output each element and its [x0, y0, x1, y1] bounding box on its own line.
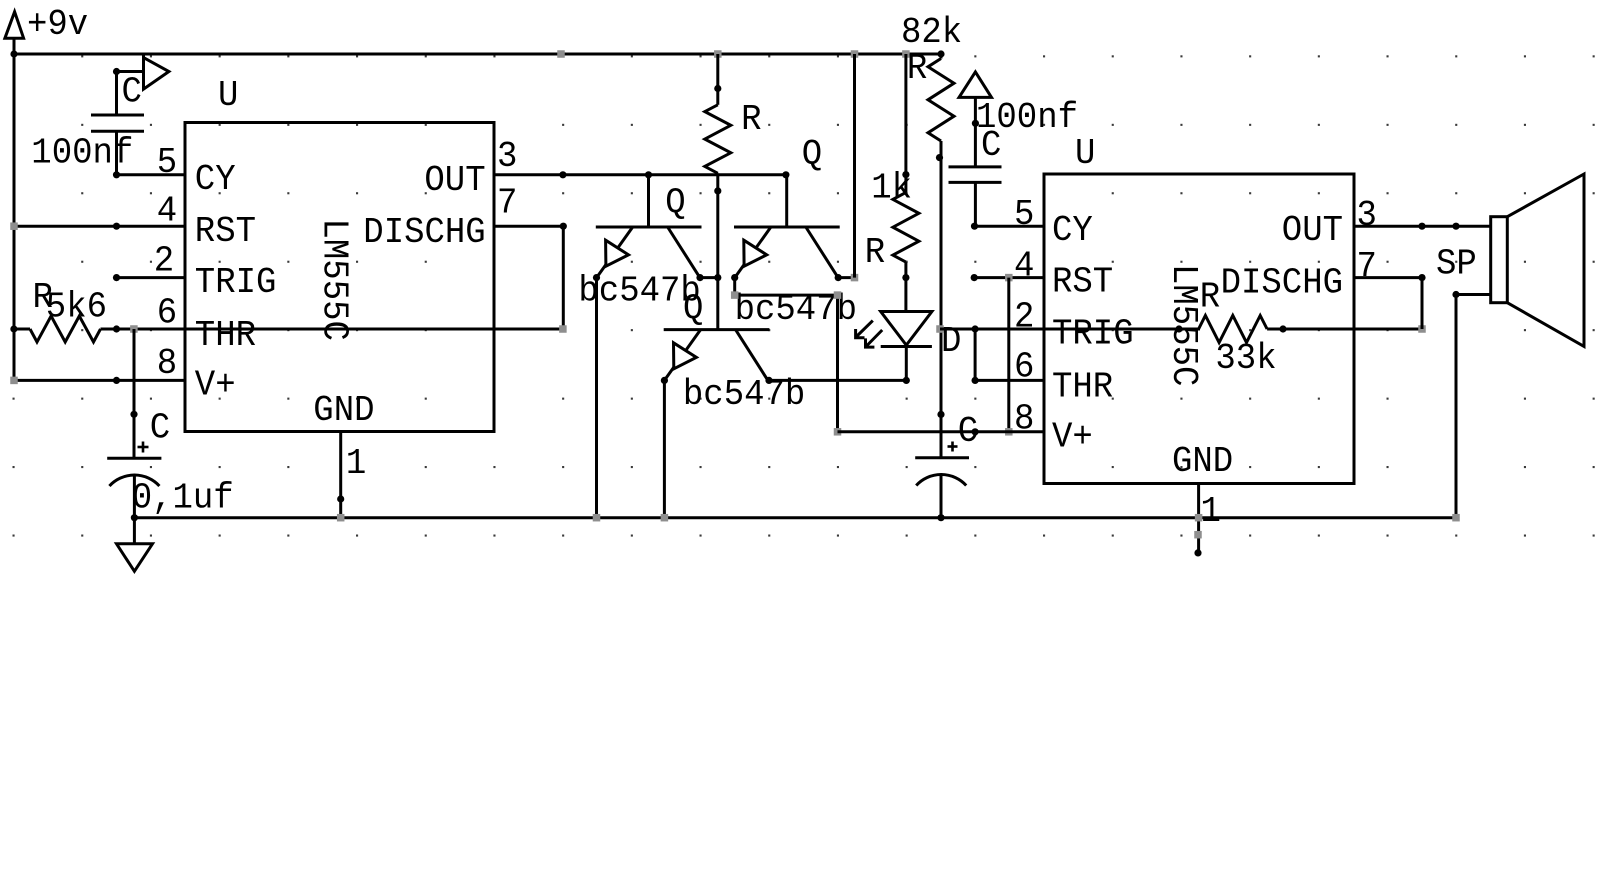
- capacitor C 0,1uf (polarized): [133, 329, 136, 458]
- svg-text:THR: THR: [195, 315, 256, 356]
- wire: pin8 V+ stub IC1: [14, 379, 185, 382]
- wire: pin1 GND stub IC2: [1197, 484, 1200, 554]
- resistor R (center, collector load): [716, 54, 719, 105]
- wire: DISCHG pin7 IC2 down to 33k line: [1354, 276, 1422, 279]
- wire: THR line through IC1 to DISCHG: [101, 328, 564, 331]
- svg-text:Q: Q: [665, 183, 685, 224]
- svg-text:1: 1: [1201, 491, 1221, 532]
- svg-text:GND: GND: [1172, 441, 1233, 482]
- svg-text:8: 8: [157, 343, 177, 384]
- svg-text:C: C: [981, 125, 1001, 166]
- arrow marker (buffer arrow at top): [142, 54, 145, 89]
- resistor R 33k: [1199, 316, 1268, 343]
- wire: V+ line into IC2 pin8: [838, 430, 1045, 433]
- svg-text:TRIG: TRIG: [195, 262, 277, 303]
- wire: OUT pin3 IC2 to speaker: [1354, 225, 1491, 228]
- svg-text:R: R: [865, 232, 885, 273]
- wire: pin5 CY stub IC1: [117, 173, 186, 176]
- svg-text:4: 4: [1014, 246, 1034, 287]
- svg-text:RST: RST: [195, 211, 256, 252]
- svg-text:6: 6: [157, 293, 177, 334]
- svg-text:Q: Q: [683, 289, 703, 330]
- wire: pin5 CY stub IC2: [975, 225, 1045, 228]
- wire: Q1 collector to center vertical: [700, 276, 718, 279]
- wire: center vertical from OUT line down to Q3 base: [716, 175, 719, 329]
- wire: OUT pin3 IC1: [494, 173, 786, 176]
- transistor Q1 bc547b: [647, 175, 650, 227]
- wire: +9V top rail: [14, 53, 941, 56]
- wire: pin2 TRIG stub IC1: [117, 276, 186, 279]
- wire: +9V drop to Q2 collector: [853, 54, 856, 278]
- wire: Q1 emitter down to ground bus: [595, 278, 598, 518]
- wire: left +9V rail down: [13, 54, 16, 380]
- svg-text:CY: CY: [1052, 210, 1093, 251]
- resistor R 1k: [904, 54, 907, 192]
- svg-text:C: C: [150, 408, 170, 449]
- svg-text:THR: THR: [1052, 367, 1113, 408]
- wire: DISCHG pin7 IC1 down to THR line: [494, 225, 563, 228]
- svg-text:R: R: [1200, 277, 1220, 318]
- svg-text:R: R: [907, 48, 927, 89]
- wire: 82k bottom down across to bus: [940, 141, 943, 458]
- capacitor C 100nf (right): [974, 97, 977, 166]
- svg-text:U: U: [1075, 133, 1095, 174]
- wire: Q3 emitter down to ground bus: [663, 380, 666, 517]
- svg-text:1k: 1k: [871, 167, 912, 208]
- svg-text:0,1uf: 0,1uf: [132, 478, 234, 519]
- svg-text:D: D: [941, 321, 961, 362]
- speaker SP: [1491, 217, 1508, 303]
- ground symbol: [133, 518, 136, 544]
- IC U2 LM555C timer box: [1044, 174, 1354, 484]
- svg-text:8: 8: [1014, 399, 1034, 440]
- svg-text:V+: V+: [195, 365, 236, 406]
- svg-text:OUT: OUT: [424, 160, 485, 201]
- svg-text:2: 2: [154, 241, 174, 282]
- wire: RST2 tie to V+: [1007, 278, 1010, 432]
- LED D: [881, 312, 932, 346]
- transistor Q3 bc547b: [715, 328, 718, 332]
- wire: Q2 collector to +9V drop: [838, 276, 854, 279]
- svg-text:7: 7: [1357, 246, 1377, 287]
- svg-text:DISCHG: DISCHG: [363, 212, 485, 253]
- svg-text:3: 3: [497, 136, 517, 177]
- wire: pin4 RST stub IC2: [974, 276, 1044, 279]
- wire: TRIG2 line from 82k node: [936, 325, 944, 333]
- svg-text:TRIG: TRIG: [1052, 314, 1134, 355]
- svg-text:+9v: +9v: [27, 4, 88, 45]
- svg-text:4: 4: [157, 190, 177, 231]
- wire: Q3 collector to LED cathode: [769, 379, 906, 382]
- wire: speaker return to ground: [1456, 293, 1491, 296]
- wire: pin4 RST stub IC1: [14, 225, 185, 228]
- svg-text:V+: V+: [1052, 417, 1093, 458]
- LED emission arrows: [856, 321, 873, 338]
- svg-text:Q: Q: [802, 134, 822, 175]
- svg-text:U: U: [218, 75, 238, 116]
- svg-text:2: 2: [1014, 297, 1034, 338]
- power symbol (100nf supply arrow): [959, 72, 992, 98]
- capacitor C 100nf (top left): [117, 70, 144, 73]
- svg-text:6: 6: [1014, 347, 1034, 388]
- wire: Q2 emitter to IC2 V+ rail: [733, 278, 736, 296]
- svg-text:100nf: 100nf: [31, 133, 133, 174]
- wire: ground bus: [134, 516, 1456, 519]
- svg-text:SP: SP: [1436, 244, 1477, 285]
- svg-text:C: C: [122, 71, 142, 112]
- resistor R 5k6: [14, 328, 30, 331]
- svg-text:5: 5: [157, 142, 177, 183]
- junction dots on rail: [10, 50, 17, 57]
- svg-text:5: 5: [1014, 194, 1034, 235]
- IC U1 LM555C timer box: [185, 123, 494, 432]
- svg-text:33k: 33k: [1215, 338, 1276, 379]
- svg-text:LM555C: LM555C: [1163, 264, 1204, 386]
- transistor Q2 bc547b: [785, 175, 788, 227]
- svg-text:LM555C: LM555C: [313, 219, 354, 341]
- svg-text:RST: RST: [1052, 262, 1113, 303]
- svg-text:CY: CY: [195, 159, 236, 200]
- capacitor C (polarized, at IC2 V+): [915, 456, 969, 459]
- power symbol +9v: [5, 12, 24, 38]
- svg-text:DISCHG: DISCHG: [1221, 263, 1343, 304]
- wire: TRIG-THR tie IC2: [974, 329, 977, 380]
- wire: pin6 THR stub IC2: [975, 379, 1045, 382]
- svg-text:GND: GND: [313, 390, 374, 431]
- svg-text:7: 7: [497, 183, 517, 224]
- wire: pin1 GND stub IC1: [339, 432, 342, 518]
- svg-text:3: 3: [1357, 195, 1377, 236]
- svg-text:5k6: 5k6: [46, 287, 107, 328]
- svg-text:OUT: OUT: [1282, 210, 1343, 251]
- wire: TRIG2 line with 33k: [940, 328, 1200, 331]
- svg-text:R: R: [741, 99, 761, 140]
- svg-text:1: 1: [346, 443, 366, 484]
